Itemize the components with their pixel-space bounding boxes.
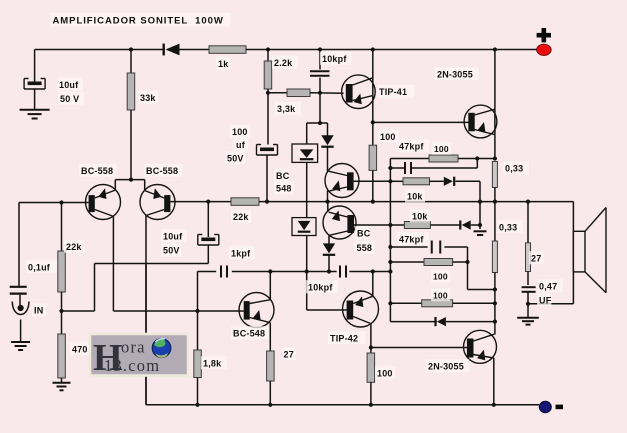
svg-text:0,33: 0,33 [505, 164, 523, 174]
svg-text:0,47: 0,47 [539, 282, 557, 292]
svg-text:UF: UF [539, 296, 552, 306]
svg-text:10uf: 10uf [163, 232, 183, 242]
svg-text:27: 27 [284, 350, 294, 360]
svg-text:1,8k: 1,8k [203, 359, 222, 369]
svg-text:BC-548: BC-548 [233, 329, 265, 339]
svg-text:2N-3055: 2N-3055 [428, 362, 464, 372]
svg-text:100: 100 [433, 291, 448, 301]
svg-text:AMPLIFICADOR SONITEL 100W: AMPLIFICADOR SONITEL 100W [53, 16, 224, 27]
svg-text:ora: ora [121, 338, 146, 357]
svg-text:0,1uf: 0,1uf [28, 263, 51, 273]
svg-text:13.com: 13.com [104, 356, 160, 375]
svg-text:uf: uf [236, 140, 246, 150]
svg-text:22k: 22k [233, 212, 249, 222]
svg-text:TIP-41: TIP-41 [379, 87, 407, 97]
svg-text:10k: 10k [407, 192, 423, 202]
svg-text:2.2k: 2.2k [274, 58, 293, 68]
svg-text:100: 100 [377, 369, 393, 379]
svg-text:47kpf: 47kpf [399, 142, 424, 152]
svg-text:100: 100 [433, 272, 448, 282]
svg-text:10k: 10k [412, 212, 428, 222]
svg-text:2N-3055: 2N-3055 [437, 70, 473, 80]
svg-text:BC: BC [357, 229, 371, 239]
svg-text:IN: IN [34, 306, 43, 316]
svg-text:3,3k: 3,3k [277, 104, 296, 114]
svg-text:10kpf: 10kpf [322, 54, 347, 64]
svg-text:50V: 50V [227, 154, 244, 164]
svg-text:548: 548 [276, 184, 292, 194]
svg-text:BC: BC [276, 171, 290, 181]
svg-text:22k: 22k [66, 242, 82, 252]
svg-text:50 V: 50 V [60, 94, 79, 104]
svg-text:10uf: 10uf [59, 80, 79, 90]
svg-text:100: 100 [380, 132, 396, 142]
svg-text:470: 470 [72, 345, 88, 355]
svg-text:1k: 1k [218, 59, 229, 69]
svg-text:27: 27 [531, 254, 541, 264]
svg-text:100: 100 [434, 144, 449, 154]
svg-text:10kpf: 10kpf [308, 283, 333, 293]
svg-text:1kpf: 1kpf [231, 249, 251, 259]
svg-text:100: 100 [232, 127, 248, 137]
svg-text:TIP-42: TIP-42 [330, 334, 358, 344]
svg-text:50V: 50V [163, 246, 180, 256]
svg-text:33k: 33k [140, 93, 156, 103]
svg-text:558: 558 [357, 243, 373, 253]
svg-text:BC-558: BC-558 [146, 166, 178, 176]
svg-text:BC-558: BC-558 [81, 166, 113, 176]
svg-text:0,33: 0,33 [499, 223, 517, 233]
svg-text:47kpf: 47kpf [399, 235, 424, 245]
